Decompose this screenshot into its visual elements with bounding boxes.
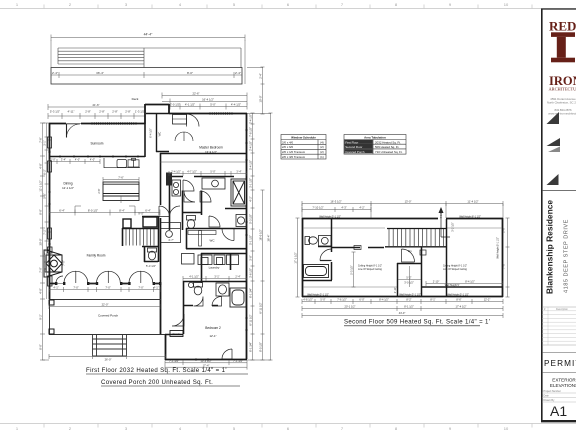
svg-text:2'-4": 2'-4" bbox=[235, 71, 241, 75]
svg-text:2/0 x 1/0 Transom: 2/0 x 1/0 Transom bbox=[282, 150, 306, 154]
svg-text:16'-3 1/2": 16'-3 1/2" bbox=[330, 200, 341, 204]
svg-text:3'-6": 3'-6" bbox=[43, 267, 47, 272]
wall stairs/powder bbox=[122, 216, 159, 262]
svg-text:PERMIT SET: PERMIT SET bbox=[544, 359, 576, 368]
svg-text:2'-4 1/2": 2'-4 1/2" bbox=[249, 141, 253, 151]
window schedule table bbox=[281, 135, 326, 160]
svg-text:Wall Height 5': Wall Height 5' bbox=[445, 284, 460, 287]
svg-text:6'-2": 6'-2" bbox=[43, 169, 47, 174]
crawlspace access box bbox=[170, 331, 183, 337]
svg-text:ELEVATIONS: ELEVATIONS bbox=[550, 383, 576, 388]
svg-text:2'-8": 2'-8" bbox=[112, 110, 118, 114]
svg-text:6'-1 3/4": 6'-1 3/4" bbox=[249, 288, 253, 298]
sf bath sink bbox=[319, 236, 332, 247]
kitchen counter sink bbox=[104, 158, 140, 168]
svg-text:10: 10 bbox=[504, 2, 509, 7]
svg-text:4'-3": 4'-3" bbox=[341, 206, 346, 210]
window sill ticks sunroom bottom bbox=[60, 155, 138, 157]
svg-text:2/0 x 6/0: 2/0 x 6/0 bbox=[282, 145, 293, 149]
master closet box bbox=[173, 115, 187, 125]
svg-text:8'-1": 8'-1" bbox=[430, 298, 435, 302]
first floor dimension chains bbox=[39, 67, 273, 386]
first floor doors / porch / labels bbox=[49, 114, 232, 360]
svg-text:5'-5": 5'-5" bbox=[43, 193, 47, 198]
window ticks on exterior walls bbox=[48, 112, 247, 360]
pantry cabinet bbox=[182, 254, 195, 265]
stair chase box bbox=[143, 217, 157, 227]
svg-text:8'-0": 8'-0" bbox=[187, 71, 193, 75]
svg-text:5'-0": 5'-0" bbox=[210, 170, 215, 174]
svg-text:2'-0 1/2": 2'-0 1/2" bbox=[170, 103, 180, 107]
sf right knee wall bbox=[422, 286, 504, 288]
door arc master entry pair bbox=[187, 114, 200, 127]
door arc wc closet left bbox=[184, 191, 195, 202]
master linen dark bbox=[166, 173, 172, 186]
second floor exterior walls bbox=[302, 218, 503, 297]
svg-text:2/0 x 3/0 Transom: 2/0 x 3/0 Transom bbox=[282, 155, 306, 159]
svg-text:5'-3 1/2": 5'-3 1/2" bbox=[146, 264, 156, 268]
wall bath2 left x183 bbox=[183, 281, 185, 334]
wc closet shelf bbox=[188, 231, 216, 235]
bath2 tub bbox=[230, 288, 246, 307]
svg-text:7'-6": 7'-6" bbox=[118, 176, 124, 180]
svg-text:13'-9 1/2": 13'-9 1/2" bbox=[205, 150, 217, 154]
svg-text:4185 DEEP STEP DRIVE: 4185 DEEP STEP DRIVE bbox=[564, 219, 570, 293]
svg-text:5'-4 1/2": 5'-4 1/2" bbox=[249, 160, 253, 170]
master shower X bbox=[231, 179, 247, 206]
svg-text:2'-8": 2'-8" bbox=[125, 110, 131, 114]
svg-text:Laundry: Laundry bbox=[209, 266, 220, 270]
svg-text:Window Schedule: Window Schedule bbox=[291, 135, 316, 139]
wall sunroom top bbox=[49, 123, 145, 125]
svg-text:4'-3 1/2": 4'-3 1/2" bbox=[439, 209, 443, 219]
dim chain right mid 10-0 bbox=[247, 67, 265, 360]
svg-text:44'-4": 44'-4" bbox=[144, 33, 153, 37]
revision table bbox=[542, 307, 576, 345]
exterior walls bbox=[49, 104, 247, 360]
svg-text:EXTERIOR: EXTERIOR bbox=[552, 378, 576, 383]
sf small box marks bbox=[354, 246, 361, 250]
sheet ruler bottom bbox=[0, 424, 576, 428]
svg-text:4'-2": 4'-2" bbox=[249, 196, 253, 201]
svg-text:2'-8": 2'-8" bbox=[85, 110, 91, 114]
svg-text:2'-4": 2'-4" bbox=[235, 275, 240, 279]
dim chain sunroom top bbox=[48, 104, 145, 119]
knee wall lines bbox=[303, 228, 502, 287]
sf closet walls bbox=[397, 219, 447, 297]
svg-text:3'-6 1/2": 3'-6 1/2" bbox=[249, 268, 253, 278]
sf bath toilet bbox=[305, 237, 317, 245]
master center shower bbox=[202, 178, 225, 189]
svg-text:3'-2 1/2": 3'-2 1/2" bbox=[451, 222, 455, 232]
svg-text:5'-2": 5'-2" bbox=[406, 276, 411, 280]
svg-text:3'-0 1/2": 3'-0 1/2" bbox=[404, 281, 414, 285]
wall bath2 top bbox=[183, 282, 247, 306]
svg-text:3'-8": 3'-8" bbox=[249, 255, 253, 260]
hall round sink bbox=[161, 222, 181, 243]
separator above project name bbox=[542, 190, 576, 192]
svg-text:6'-0": 6'-0" bbox=[359, 298, 364, 302]
svg-text:2/0 x 4/0: 2/0 x 4/0 bbox=[282, 140, 293, 144]
dim chain right outer 36-4 bbox=[247, 113, 273, 360]
door arc bath2 right bbox=[212, 297, 222, 307]
svg-text:5'-3 1/2": 5'-3 1/2" bbox=[50, 110, 60, 114]
svg-text:4'-7": 4'-7" bbox=[168, 238, 174, 242]
svg-text:WC: WC bbox=[210, 239, 216, 243]
dim chain right inner bbox=[251, 113, 255, 360]
svg-text:10: 10 bbox=[504, 426, 509, 431]
wc door arc bbox=[222, 229, 234, 241]
svg-text:6'-11 1/2": 6'-11 1/2" bbox=[249, 314, 253, 325]
svg-text:Wall Height 5'-1 1/2": Wall Height 5'-1 1/2" bbox=[307, 293, 329, 296]
kitchen dim 7-6 bbox=[103, 177, 139, 203]
svg-text:5'-3 1/2": 5'-3 1/2" bbox=[249, 214, 253, 224]
svg-text:4'-11": 4'-11" bbox=[68, 110, 75, 114]
svg-text:Line Of Sloped Ceiling: Line Of Sloped Ceiling bbox=[358, 268, 382, 271]
svg-text:8'-0 1/2": 8'-0 1/2" bbox=[88, 209, 98, 213]
svg-text:Covered Porch: Covered Porch bbox=[98, 314, 118, 318]
svg-text:A1: A1 bbox=[550, 403, 567, 419]
porch slab bbox=[49, 299, 165, 335]
project fields bbox=[544, 390, 562, 402]
stair treads bbox=[126, 229, 154, 246]
svg-text:710 Unheated Sq. Ft.: 710 Unheated Sq. Ft. bbox=[375, 150, 403, 154]
svg-text:2'-4": 2'-4" bbox=[52, 71, 58, 75]
area tabulation table bbox=[344, 135, 406, 155]
sf left dim bbox=[296, 218, 300, 297]
wall vertical x169 bbox=[168, 104, 170, 114]
sf stairs bbox=[385, 229, 447, 247]
svg-text:Date: Date bbox=[544, 395, 550, 398]
deck dim labels bbox=[52, 71, 241, 75]
svg-text:7'-0": 7'-0" bbox=[62, 260, 66, 266]
bedroom2 bottom dims bbox=[165, 361, 247, 370]
svg-text:7'-2": 7'-2" bbox=[43, 229, 47, 234]
svg-text:8'-2": 8'-2" bbox=[406, 298, 411, 302]
svg-text:36'-4": 36'-4" bbox=[96, 71, 104, 75]
sf bath door arc bbox=[320, 249, 332, 261]
wall bath band y176 bbox=[169, 176, 234, 178]
master wc toilet bbox=[187, 216, 196, 229]
mark triangle 3 bbox=[547, 174, 559, 185]
svg-text:20'-1 1/2": 20'-1 1/2" bbox=[345, 305, 356, 309]
sf stair treads bbox=[389, 229, 444, 246]
svg-text:4'-0": 4'-0" bbox=[90, 158, 95, 162]
svg-text:4'-1 1/2": 4'-1 1/2" bbox=[185, 103, 195, 107]
svg-text:Crawls: Crawls bbox=[173, 332, 182, 336]
svg-text:Blankenship Residence: Blankenship Residence bbox=[545, 200, 555, 294]
svg-text:4'-1": 4'-1" bbox=[53, 286, 58, 290]
svg-text:RED: RED bbox=[549, 19, 576, 34]
svg-text:WC: WC bbox=[158, 132, 162, 137]
sf tub bbox=[304, 265, 329, 278]
svg-text:Area Tabulation: Area Tabulation bbox=[364, 135, 386, 139]
bath2 vanity bbox=[216, 283, 229, 296]
svg-text:8'-4 1/2": 8'-4 1/2" bbox=[465, 280, 475, 284]
header lines over porch openings bbox=[56, 124, 161, 284]
svg-text:(1): (1) bbox=[320, 155, 324, 159]
svg-text:Line Of Sloped Ceiling: Line Of Sloped Ceiling bbox=[443, 268, 467, 271]
svg-text:North Charleston, SC 294: North Charleston, SC 294 bbox=[547, 101, 576, 105]
svg-text:7'-0": 7'-0" bbox=[105, 286, 110, 290]
svg-text:5'-3 1/2": 5'-3 1/2" bbox=[350, 265, 354, 275]
svg-text:7'-6": 7'-6" bbox=[502, 263, 506, 268]
svg-text:www.red-iron-architectu: www.red-iron-architectu bbox=[548, 111, 576, 115]
family interior dim bbox=[49, 206, 160, 216]
svg-text:16'-4 1/2": 16'-4 1/2" bbox=[202, 98, 214, 102]
svg-text:3'-1": 3'-1" bbox=[214, 275, 219, 279]
svg-text:(4): (4) bbox=[320, 140, 324, 144]
svg-text:Sunroom: Sunroom bbox=[91, 142, 104, 146]
svg-text:12'-1 1/2": 12'-1 1/2" bbox=[62, 186, 74, 190]
master sink vanity bbox=[236, 215, 247, 227]
svg-text:36'-4": 36'-4" bbox=[267, 235, 271, 242]
svg-text:22'-0": 22'-0" bbox=[102, 303, 109, 307]
wall vanity y208 bbox=[225, 208, 247, 210]
svg-text:2'-4": 2'-4" bbox=[259, 73, 263, 78]
wall sunroom bottom bbox=[49, 124, 247, 335]
svg-text:12'-2": 12'-2" bbox=[484, 298, 491, 302]
wall height labels on walls bbox=[307, 215, 481, 296]
svg-text:4'-0": 4'-0" bbox=[39, 288, 43, 293]
svg-text:Wall Height 8'-1 1/2": Wall Height 8'-1 1/2" bbox=[459, 215, 481, 218]
svg-text:2'-10": 2'-10" bbox=[433, 280, 440, 284]
svg-text:ARCHITECTURE: ARCHITECTURE bbox=[549, 87, 576, 92]
svg-text:Bedroom 2: Bedroom 2 bbox=[205, 326, 221, 330]
svg-text:Wall Height 5'-1 1/2": Wall Height 5'-1 1/2" bbox=[399, 293, 421, 296]
svg-text:6'-4": 6'-4" bbox=[145, 209, 151, 213]
door arc laundry bbox=[209, 216, 220, 227]
svg-text:8'-4 1/2": 8'-4 1/2" bbox=[379, 298, 389, 302]
porch dims bbox=[49, 287, 166, 359]
svg-text:7'-0": 7'-0" bbox=[138, 286, 143, 290]
wall master top bbox=[169, 113, 247, 115]
svg-text:7'-1 3/4": 7'-1 3/4" bbox=[169, 359, 179, 363]
svg-text:2'-6": 2'-6" bbox=[502, 227, 506, 232]
wall left exterior bbox=[49, 123, 51, 299]
wall bath left x169 bbox=[169, 176, 171, 230]
mark triangle 1 bbox=[547, 112, 560, 124]
svg-text:44'-0": 44'-0" bbox=[399, 311, 406, 315]
svg-text:(2): (2) bbox=[320, 145, 324, 149]
wall vertical x145 bbox=[144, 104, 146, 124]
porch posts bbox=[49, 300, 54, 334]
svg-text:5'-0": 5'-0" bbox=[320, 298, 325, 302]
wall sf bottom bbox=[302, 296, 503, 298]
wall sf top bbox=[302, 218, 503, 220]
wall hall-porch vertical bbox=[160, 283, 162, 334]
svg-text:Covered Porch: Covered Porch bbox=[345, 150, 365, 154]
wc strip wall bbox=[146, 114, 169, 153]
svg-text:4'-2": 4'-2" bbox=[359, 206, 364, 210]
address lines bbox=[547, 97, 576, 115]
svg-text:12'-1 1/2": 12'-1 1/2" bbox=[39, 180, 43, 191]
svg-text:17'-4 1/2": 17'-4 1/2" bbox=[456, 305, 467, 309]
caption first floor bbox=[86, 367, 227, 386]
svg-text:4'-1 1/2": 4'-1 1/2" bbox=[189, 275, 199, 279]
svg-text:8'-0": 8'-0" bbox=[39, 209, 43, 214]
door jamb posts porch wall bbox=[55, 282, 161, 285]
svg-text:4'-1": 4'-1" bbox=[43, 249, 47, 254]
svg-text:22'-6": 22'-6" bbox=[192, 92, 199, 96]
porch steps bbox=[93, 334, 127, 356]
svg-text:4'-4 1/2": 4'-4 1/2" bbox=[231, 103, 241, 107]
svg-text:Description: Description bbox=[556, 308, 569, 311]
door arc master wc hall bbox=[183, 180, 194, 191]
svg-text:21'-6": 21'-6" bbox=[92, 103, 99, 107]
sf bottom dim chains bbox=[302, 299, 503, 318]
wall master bottom bbox=[160, 153, 247, 155]
svg-text:2'-4 1/2": 2'-4 1/2" bbox=[171, 170, 181, 174]
svg-text:4'-0": 4'-0" bbox=[75, 158, 80, 162]
mark triangle 2 bbox=[547, 138, 561, 146]
dim chain y93 deck/master bbox=[162, 93, 247, 110]
svg-text:4'-7 1/2": 4'-7 1/2" bbox=[187, 170, 197, 174]
svg-text:First Floor 2032 Heated Sq.: First Floor 2032 Heated Sq. Ft. Scale 1/… bbox=[86, 367, 227, 374]
dim chain below sunroom wall bbox=[49, 159, 100, 164]
svg-text:2032 Heated Sq. Ft.: 2032 Heated Sq. Ft. bbox=[375, 140, 401, 144]
wall bed2 hall bbox=[165, 334, 183, 336]
svg-text:7'-6 1/2": 7'-6 1/2" bbox=[337, 298, 347, 302]
svg-text:3'-4": 3'-4" bbox=[236, 170, 241, 174]
svg-text:Second Floor 509 Heated Sq.: Second Floor 509 Heated Sq. Ft. Scale 1/… bbox=[344, 319, 490, 326]
master bath dim chain y174 bbox=[169, 171, 247, 176]
svg-text:16'-0 1/2": 16'-0 1/2" bbox=[259, 229, 263, 240]
svg-text:Wall Height 5'-1 1/2": Wall Height 5'-1 1/2" bbox=[497, 237, 500, 259]
door arc wc closet right bbox=[200, 191, 211, 202]
dim chain left outer bbox=[40, 123, 49, 360]
fireplace bbox=[44, 250, 62, 277]
svg-text:7'-0": 7'-0" bbox=[73, 286, 78, 290]
svg-text:8'-1 1/2": 8'-1 1/2" bbox=[404, 305, 414, 309]
laundry washer dryer bbox=[198, 255, 239, 265]
top dim chain bbox=[302, 201, 503, 218]
svg-text:4'-8 1/2": 4'-8 1/2" bbox=[303, 298, 313, 302]
svg-text:6'-1 3/4": 6'-1 3/4" bbox=[249, 342, 253, 352]
bath2 dim chain y279 bbox=[183, 276, 247, 281]
svg-text:First Floor: First Floor bbox=[345, 140, 358, 144]
sf bath walls bbox=[302, 219, 384, 281]
svg-text:3'-4": 3'-4" bbox=[61, 158, 66, 162]
logo I-beam bbox=[551, 32, 575, 62]
powder toilet bbox=[148, 248, 157, 260]
stair newel box bbox=[123, 219, 131, 228]
svg-text:8'-4": 8'-4" bbox=[119, 209, 125, 213]
wall laundry box bbox=[201, 253, 247, 283]
svg-text:Family Room: Family Room bbox=[87, 254, 106, 258]
svg-text:2'-6": 2'-6" bbox=[97, 188, 101, 193]
svg-text:3'-1": 3'-1" bbox=[43, 140, 47, 145]
svg-text:Second Floor: Second Floor bbox=[345, 145, 362, 149]
shelf line right wing y162 bbox=[160, 161, 246, 163]
svg-text:(2): (2) bbox=[320, 150, 324, 154]
wall bedroom2 left bbox=[165, 334, 167, 360]
sf interior dims bbox=[352, 252, 504, 287]
master vanity bbox=[172, 180, 181, 196]
porch french doors arcs bbox=[56, 271, 153, 283]
svg-text:Wall Height 5'-1 1/2": Wall Height 5'-1 1/2" bbox=[319, 215, 341, 218]
door arc hall french doors bbox=[159, 206, 180, 217]
svg-text:26'-0": 26'-0" bbox=[105, 358, 112, 362]
svg-text:7'-10 1/2": 7'-10 1/2" bbox=[312, 206, 323, 210]
svg-text:4'-8": 4'-8" bbox=[39, 163, 43, 168]
svg-text:10'-0": 10'-0" bbox=[259, 96, 263, 103]
wall hall left x160 bbox=[160, 153, 162, 284]
wall water closet bbox=[182, 191, 202, 231]
svg-text:5'-1 1/2": 5'-1 1/2" bbox=[249, 235, 253, 245]
wall bedroom2 bottom bbox=[165, 359, 247, 361]
deck outline bbox=[51, 68, 242, 85]
door arc bed2 closet bbox=[222, 349, 232, 359]
svg-text:9'-2": 9'-2" bbox=[39, 314, 43, 319]
svg-text:509 Heated Sq. Ft.: 509 Heated Sq. Ft. bbox=[375, 145, 399, 149]
svg-text:30'-0": 30'-0" bbox=[39, 239, 43, 246]
svg-text:7'-0": 7'-0" bbox=[39, 267, 43, 272]
kitchen island bbox=[103, 182, 139, 201]
wall sf left bbox=[302, 218, 304, 297]
svg-text:17'-1 1/2": 17'-1 1/2" bbox=[294, 252, 298, 263]
svg-text:1'-3 1/2": 1'-3 1/2" bbox=[135, 110, 145, 114]
door arc bath2 left bbox=[194, 297, 204, 307]
svg-text:11'-4 1/2": 11'-4 1/2" bbox=[467, 200, 478, 204]
sheet ruler top bbox=[0, 5, 576, 9]
svg-text:Project Number: Project Number bbox=[544, 390, 562, 393]
wall family room bottom / porch bbox=[49, 283, 160, 285]
svg-text:6'-4 1/2": 6'-4 1/2" bbox=[149, 128, 153, 138]
svg-text:Drawn By: Drawn By bbox=[544, 399, 556, 402]
window boxes left wall bbox=[48, 137, 53, 286]
svg-text:7'-6": 7'-6" bbox=[39, 137, 43, 142]
sf stair dn arrow bbox=[439, 207, 451, 237]
butterfly doors wc strip bbox=[175, 132, 193, 141]
svg-text:3'-1 1/2": 3'-1 1/2" bbox=[249, 178, 253, 188]
deck dimension line bbox=[51, 72, 242, 78]
svg-text:8'-5 1/2": 8'-5 1/2" bbox=[259, 342, 263, 352]
svg-text:5'-0": 5'-0" bbox=[210, 103, 216, 107]
svg-text:6'-4": 6'-4" bbox=[59, 209, 65, 213]
wall sf right bbox=[502, 218, 504, 297]
wall sunroom right bbox=[144, 124, 146, 157]
svg-text:Deck: Deck bbox=[132, 97, 139, 101]
door arc sunroom entry bbox=[67, 124, 81, 138]
svg-text:Dining: Dining bbox=[63, 182, 72, 186]
first floor interior bbox=[44, 124, 247, 337]
wall right exterior bbox=[246, 113, 248, 359]
svg-text:13'-0": 13'-0" bbox=[405, 200, 412, 204]
svg-text:10'-4 1/2": 10'-4 1/2" bbox=[200, 359, 211, 363]
svg-text:8'-0": 8'-0" bbox=[39, 344, 43, 349]
svg-text:9'-0": 9'-0" bbox=[138, 212, 144, 216]
svg-text:8'-6": 8'-6" bbox=[456, 298, 461, 302]
bath2 toilet bbox=[188, 282, 202, 295]
sheet title bbox=[550, 378, 576, 389]
svg-text:2'-4 1/2": 2'-4 1/2" bbox=[249, 114, 253, 124]
sf right dim bbox=[506, 218, 510, 297]
svg-text:6'-11 1/2": 6'-11 1/2" bbox=[259, 302, 263, 313]
sf closet door arc bbox=[402, 249, 415, 262]
svg-text:7'-8 1/2": 7'-8 1/2" bbox=[249, 127, 253, 137]
title block border bbox=[541, 9, 576, 423]
permit set bbox=[542, 352, 576, 354]
svg-text:2'-11": 2'-11" bbox=[393, 287, 397, 293]
door arc bedroom2 entry bbox=[172, 314, 184, 326]
wall entry bump top bbox=[145, 104, 169, 106]
svg-text:7'-1 3/4": 7'-1 3/4" bbox=[233, 359, 243, 363]
svg-text:12'-1": 12'-1" bbox=[209, 334, 216, 338]
wall wc closet box bbox=[186, 228, 246, 249]
ceiling height labels bbox=[358, 265, 468, 271]
svg-text:4'-1": 4'-1" bbox=[153, 286, 158, 290]
